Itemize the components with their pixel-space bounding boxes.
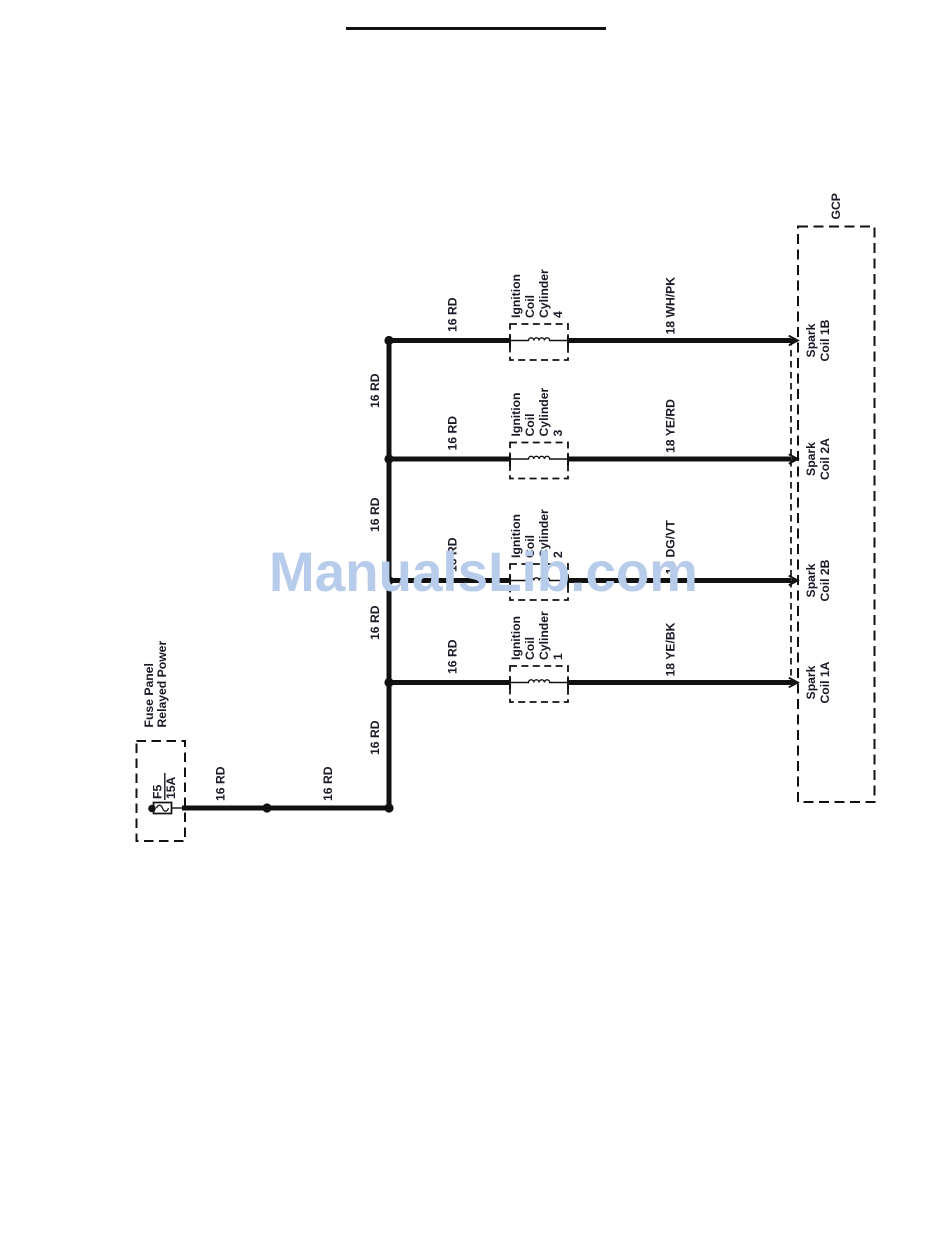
- svg-text:Cylinder: Cylinder: [537, 269, 551, 318]
- svg-text:Spark: Spark: [804, 442, 818, 476]
- ignition coil cylinder 1 dashed box: [510, 666, 568, 702]
- junction dot bus/branch 3: [384, 576, 393, 585]
- ignition coil cylinder 3 dashed box: [510, 443, 568, 479]
- wire branch 3: bus to ignition coil: [387, 578, 511, 583]
- GCP pin label Spark Coil 1B: [804, 319, 832, 361]
- fuse F5 symbol: [148, 803, 183, 814]
- arrowhead into GCP pin (Spark Coil 1A): [789, 678, 798, 688]
- coil element (inductor) 2: [510, 456, 568, 459]
- svg-text:Cylinder: Cylinder: [537, 387, 551, 436]
- svg-text:16 RD: 16 RD: [368, 497, 382, 532]
- svg-text:Coil 2A: Coil 2A: [818, 438, 832, 480]
- fuse panel dashed box: [137, 741, 186, 841]
- svg-text:16 RD: 16 RD: [446, 297, 460, 332]
- ignition coil cylinder 1 label: [509, 611, 565, 660]
- junction dot on feed wire: [262, 803, 271, 812]
- svg-text:3: 3: [551, 430, 565, 437]
- svg-text:Coil 1A: Coil 1A: [818, 661, 832, 703]
- arrowhead into GCP pin (Spark Coil 2B): [789, 576, 798, 586]
- svg-text:F5: F5: [151, 785, 165, 799]
- svg-text:Relayed Power: Relayed Power: [155, 641, 169, 728]
- svg-text:Ignition: Ignition: [509, 393, 523, 437]
- svg-text:Coil: Coil: [523, 413, 537, 436]
- ignition coil cylinder 4 dashed box: [510, 324, 568, 360]
- junction dot at bus bottom corner: [384, 803, 393, 812]
- GCP connector pin rail (inner dashed line): [790, 339, 792, 685]
- coil element (inductor) 4: [510, 680, 568, 683]
- wire branch 4: coil to GCP (18 YE/BK): [568, 680, 791, 685]
- svg-text:Spark: Spark: [804, 665, 818, 699]
- title rule: [346, 27, 606, 30]
- svg-text:16 RD: 16 RD: [446, 416, 460, 451]
- svg-text:16 RD: 16 RD: [446, 639, 460, 674]
- ignition coil cylinder 2 label: [509, 509, 565, 558]
- svg-text:15A: 15A: [164, 776, 178, 799]
- wire branch 2: coil to GCP (18 YE/RD): [568, 457, 791, 462]
- svg-text:Ignition: Ignition: [509, 274, 523, 318]
- ignition coil cylinder 2 dashed box: [510, 564, 568, 600]
- wire branch 3: coil to GCP (18 DG/VT): [568, 578, 791, 583]
- GCP pin label Spark Coil 2A: [804, 438, 832, 480]
- junction dot bus/branch 4: [384, 678, 393, 687]
- arrowhead into GCP pin (Spark Coil 2A): [789, 454, 798, 464]
- svg-text:18 WH/PK: 18 WH/PK: [664, 277, 678, 335]
- wire branch 1: bus to ignition coil: [387, 338, 511, 343]
- svg-text:16 RD: 16 RD: [321, 766, 335, 801]
- bottom feed wire from fuse to bus: [182, 806, 392, 811]
- svg-text:Spark: Spark: [804, 323, 818, 357]
- coil element (inductor) 3: [510, 578, 568, 581]
- vertical bus 16 RD: [387, 338, 392, 808]
- svg-text:GCP: GCP: [829, 193, 843, 219]
- coil terminal ticks 4: [509, 678, 511, 690]
- ignition coil cylinder 3 label: [509, 387, 565, 436]
- svg-text:Coil: Coil: [523, 637, 537, 660]
- svg-text:4: 4: [551, 311, 565, 318]
- junction dot bus/branch 2: [384, 454, 393, 463]
- svg-text:16 RD: 16 RD: [368, 605, 382, 640]
- svg-text:Coil 2B: Coil 2B: [818, 559, 832, 601]
- wire branch 2: bus to ignition coil: [387, 457, 511, 462]
- arrowhead into GCP pin (Spark Coil 1B): [789, 336, 798, 346]
- coil element (inductor) 1: [510, 338, 568, 341]
- svg-text:Fuse Panel: Fuse Panel: [142, 663, 156, 727]
- svg-text:Cylinder: Cylinder: [537, 611, 551, 660]
- svg-text:18 YE/BK: 18 YE/BK: [664, 622, 678, 676]
- GCP connector dashed box: [798, 227, 875, 803]
- fuse panel label "Fuse Panel Relayed Power": [142, 641, 169, 728]
- wire branch 4: bus to ignition coil: [387, 680, 511, 685]
- fuse F5 15A label: [151, 773, 179, 800]
- svg-text:16 RD: 16 RD: [368, 720, 382, 755]
- svg-text:Spark: Spark: [804, 563, 818, 597]
- svg-text:16 RD: 16 RD: [368, 373, 382, 408]
- svg-text:18 YE/RD: 18 YE/RD: [664, 399, 678, 453]
- wire branch 1: coil to GCP (18 WH/PK): [568, 338, 791, 343]
- coil terminal ticks 1: [509, 336, 511, 348]
- GCP pin label Spark Coil 2B: [804, 559, 832, 601]
- GCP pin label Spark Coil 1A: [804, 661, 832, 703]
- coil terminal ticks 3: [509, 576, 511, 588]
- svg-text:16 RD: 16 RD: [214, 766, 228, 801]
- ignition coil cylinder 4 label: [509, 269, 565, 318]
- junction dot bus/branch 1: [384, 336, 393, 345]
- svg-text:Coil: Coil: [523, 295, 537, 318]
- svg-text:Ignition: Ignition: [509, 616, 523, 660]
- svg-text:ManualsLib.com: ManualsLib.com: [269, 540, 698, 603]
- coil terminal ticks 2: [509, 454, 511, 466]
- svg-text:Coil 1B: Coil 1B: [818, 319, 832, 361]
- svg-text:1: 1: [551, 653, 565, 660]
